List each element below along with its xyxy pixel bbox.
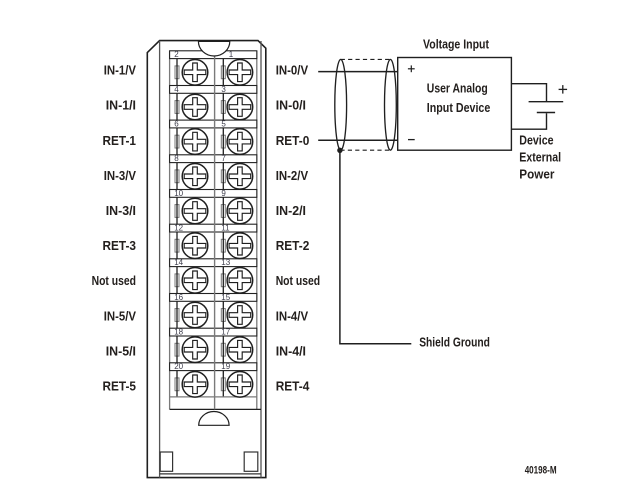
screw terminal 11 (RET-2) — [227, 233, 253, 259]
svg-text:Power: Power — [519, 167, 554, 182]
cable shield bottom dashed line — [340, 149, 390, 151]
terminal 4 wire clamp (left column row 2) — [175, 93, 179, 120]
terminal 13 wire clamp (right column row 7) — [221, 267, 225, 294]
shield junction dot — [337, 148, 342, 153]
separator bar with terminal numbers 10/9 — [170, 190, 257, 198]
terminal 12 wire clamp (left column row 6) — [175, 232, 179, 259]
center divider between terminal columns — [214, 51, 216, 410]
svg-text:19: 19 — [221, 362, 230, 371]
terminal 6 wire clamp (left column row 3) — [175, 128, 179, 155]
wire RET-0 to device - — [318, 139, 398, 141]
svg-text:RET-1: RET-1 — [103, 133, 137, 148]
left mounting foot — [160, 452, 172, 471]
terminal 8 wire clamp (left column row 4) — [175, 163, 179, 190]
terminal 16 wire clamp (left column row 8) — [175, 301, 179, 328]
terminal 14 wire clamp (left column row 7) — [175, 267, 179, 294]
terminal 9 wire clamp (right column row 5) — [221, 197, 225, 224]
screw terminal 13 (Not used) — [227, 268, 253, 294]
screw terminal 19 (RET-4) — [227, 372, 253, 398]
terminal 19 wire clamp (right column row 10) — [221, 371, 225, 397]
svg-text:External: External — [519, 150, 561, 165]
svg-text:Input Device: Input Device — [427, 100, 491, 115]
terminal 17 wire clamp (right column row 9) — [221, 336, 225, 363]
separator bar with terminal numbers 2/1 — [170, 51, 257, 59]
keying notch top (semicircle) — [198, 41, 229, 56]
terminal 10 wire clamp (left column row 5) — [175, 197, 179, 224]
svg-text:IN-0/I: IN-0/I — [276, 98, 306, 113]
shield ground wire — [340, 150, 411, 343]
svg-text:IN-5/V: IN-5/V — [104, 308, 137, 323]
cable shield left end (ellipse) — [335, 59, 347, 150]
separator bar with terminal numbers 6/5 — [170, 120, 257, 128]
screw terminal 8 (IN-3/V) — [182, 164, 208, 190]
terminal 20 wire clamp (left column row 10) — [175, 371, 179, 397]
svg-text:2: 2 — [174, 50, 179, 59]
svg-text:IN-2/V: IN-2/V — [276, 168, 309, 183]
terminal 15 wire clamp (right column row 8) — [221, 301, 225, 328]
terminal 18 wire clamp (left column row 9) — [175, 336, 179, 363]
housing inner bottom edge — [160, 473, 261, 475]
screw terminal 2 (IN-1/V) — [182, 60, 208, 86]
battery bottom wire — [511, 113, 546, 129]
terminal 11 wire clamp (right column row 6) — [221, 232, 225, 259]
svg-text:14: 14 — [174, 258, 183, 267]
svg-text:RET-4: RET-4 — [276, 379, 310, 394]
svg-text:20: 20 — [174, 362, 183, 371]
svg-text:IN-4/I: IN-4/I — [276, 343, 306, 358]
svg-text:6: 6 — [174, 120, 179, 129]
svg-text:IN-0/V: IN-0/V — [276, 63, 309, 78]
terminal 7 wire clamp (right column row 4) — [221, 163, 225, 190]
device - polarity mark — [408, 139, 415, 141]
svg-text:Voltage Input: Voltage Input — [423, 36, 490, 51]
battery negative plate — [537, 112, 555, 114]
user analog input device box U1 — [398, 58, 512, 151]
screw terminal 9 (IN-2/I) — [227, 198, 253, 224]
cable shield right end (ellipse) — [385, 59, 397, 150]
terminal 2 wire clamp (left column row 1) — [175, 59, 179, 86]
svg-text:18: 18 — [174, 328, 183, 337]
screw terminal 6 (RET-1) — [182, 129, 208, 155]
screw terminal 15 (IN-4/V) — [227, 302, 253, 328]
terminal 5 wire clamp (right column row 3) — [221, 128, 225, 155]
svg-text:13: 13 — [221, 258, 230, 267]
svg-text:User Analog: User Analog — [427, 80, 488, 95]
svg-text:8: 8 — [174, 154, 179, 163]
svg-text:7: 7 — [221, 154, 226, 163]
svg-text:9: 9 — [221, 189, 226, 198]
device + polarity mark — [408, 65, 415, 72]
svg-text:17: 17 — [221, 328, 230, 337]
screw terminal 7 (IN-2/V) — [227, 164, 253, 190]
battery positive plate — [529, 101, 564, 103]
svg-text:12: 12 — [174, 224, 183, 233]
svg-text:IN-3/V: IN-3/V — [104, 168, 137, 183]
svg-text:RET-2: RET-2 — [276, 238, 310, 253]
svg-text:IN-1/I: IN-1/I — [106, 98, 136, 113]
screw terminal 14 (Not used) — [182, 268, 208, 294]
svg-text:Device: Device — [519, 132, 553, 147]
housing front-face left edge — [159, 41, 161, 478]
cable shield top dashed line — [341, 58, 391, 60]
screw terminal 3 (IN-0/I) — [227, 94, 253, 120]
label Device External Power — [519, 132, 561, 181]
screw terminal 1 (IN-0/V) — [227, 60, 253, 86]
svg-text:RET-5: RET-5 — [103, 379, 137, 394]
svg-text:IN-3/I: IN-3/I — [106, 203, 136, 218]
svg-text:IN-4/V: IN-4/V — [276, 308, 309, 323]
separator bar with terminal numbers 14/13 — [170, 259, 257, 267]
svg-text:11: 11 — [221, 224, 230, 233]
svg-text:3: 3 — [221, 85, 226, 94]
svg-text:RET-0: RET-0 — [276, 133, 310, 148]
right mounting foot — [244, 452, 258, 471]
terminal 3 wire clamp (right column row 2) — [221, 93, 225, 120]
screw terminal 12 (RET-3) — [182, 233, 208, 259]
svg-text:IN-5/I: IN-5/I — [106, 343, 136, 358]
svg-text:IN-1/V: IN-1/V — [104, 63, 137, 78]
svg-text:15: 15 — [221, 293, 230, 302]
svg-text:IN-2/I: IN-2/I — [276, 203, 306, 218]
battery top wire — [511, 84, 546, 101]
svg-text:Shield Ground: Shield Ground — [419, 335, 490, 350]
keying notch bottom (semicircle) — [199, 411, 229, 425]
terminal frame left edge — [169, 51, 171, 410]
separator bar with terminal numbers 12/11 — [170, 224, 257, 232]
svg-text:Not used: Not used — [92, 273, 136, 288]
svg-text:Not used: Not used — [276, 273, 320, 288]
svg-text:1: 1 — [229, 50, 234, 59]
svg-text:40198-M: 40198-M — [525, 465, 557, 477]
separator bar with terminal numbers 8/7 — [170, 155, 257, 163]
separator bar with terminal numbers 16/15 — [170, 294, 257, 302]
svg-text:4: 4 — [174, 85, 179, 94]
screw terminal 10 (IN-3/I) — [182, 198, 208, 224]
svg-text:5: 5 — [221, 120, 226, 129]
svg-text:10: 10 — [174, 189, 183, 198]
screw terminal 4 (IN-1/I) — [182, 94, 208, 120]
housing front-face right edge — [260, 41, 262, 478]
separator bar with terminal numbers 4/3 — [170, 86, 257, 94]
wire IN-0/V to device + — [318, 71, 398, 73]
svg-text:RET-3: RET-3 — [103, 238, 137, 253]
screw terminal 5 (RET-0) — [227, 129, 253, 155]
terminal frame bottom shelf — [170, 397, 261, 410]
separator bar with terminal numbers 18/17 — [170, 328, 257, 336]
svg-text:16: 16 — [174, 293, 183, 302]
battery + polarity mark — [559, 85, 568, 94]
separator bar with terminal numbers 20/19 — [170, 363, 257, 371]
terminal 1 wire clamp (right column row 1) — [221, 59, 225, 86]
screw terminal 20 (RET-5) — [182, 372, 208, 398]
terminal frame right edge — [256, 51, 258, 410]
screw terminal 18 (IN-5/I) — [182, 337, 208, 363]
screw terminal 17 (IN-4/I) — [227, 337, 253, 363]
screw terminal 16 (IN-5/V) — [182, 302, 208, 328]
terminal block housing outline — [147, 41, 265, 478]
